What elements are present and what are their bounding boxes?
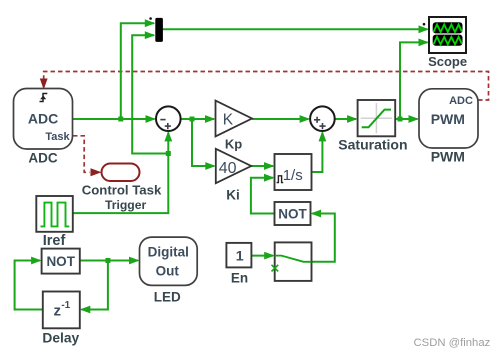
wire: En constant to Switch	[251, 255, 273, 257]
arrow into Sum2	[300, 115, 311, 123]
arrow into PWM	[409, 115, 420, 123]
arrow into integrator input	[264, 162, 275, 170]
ADC block U1	[14, 89, 73, 150]
arrow into Kp	[205, 162, 216, 170]
dot near mux	[149, 17, 152, 20]
arrow into Sum1	[146, 115, 157, 123]
junction on Sum1 output	[190, 117, 195, 122]
junction on NOT1 output	[105, 258, 110, 263]
logic NOT2	[275, 202, 311, 225]
junction on Iref wire	[166, 151, 171, 156]
svg-text:PWM: PWM	[431, 148, 465, 164]
svg-text:ADC: ADC	[28, 151, 57, 166]
svg-text:Control Task: Control Task	[82, 182, 162, 197]
wire: Iref output up to Sum1 plus branch to Mux input 2	[73, 35, 168, 213]
svg-text:Digital: Digital	[148, 245, 189, 260]
pulse generator Iref	[36, 196, 73, 232]
arrow into Digital Out	[129, 257, 140, 265]
integrator 1/s	[275, 154, 312, 190]
trigger icon	[40, 94, 48, 102]
svg-text:CSDN @finhaz: CSDN @finhaz	[414, 337, 491, 349]
arrow into Switch	[264, 252, 275, 260]
svg-text:Kp: Kp	[225, 137, 242, 152]
svg-text:K: K	[223, 112, 234, 129]
wire: Switch output up to NOT2	[312, 214, 335, 262]
svg-text:1: 1	[236, 249, 244, 265]
wire: ADC output to Sum1 with branch up to Mux input 1	[73, 23, 155, 119]
svg-text:Task: Task	[45, 131, 70, 143]
wire: red dashed PWM ADC trigger to ADC block	[44, 72, 489, 101]
svg-text:ADC: ADC	[28, 111, 58, 127]
wire: Sum1 output to K with branch down to Kp	[181, 119, 214, 166]
sum S2	[310, 106, 335, 131]
arrow: red into trigger oval	[91, 168, 102, 176]
wire: NOT1 output to Digital Out with feedback through Delay	[15, 261, 138, 310]
arrow into NOT2 right side	[311, 210, 322, 218]
gain Ki (value 40)	[216, 149, 251, 183]
junction on Saturation output	[398, 117, 403, 122]
PWM block	[419, 89, 478, 148]
wire: Kp output to integrator	[251, 165, 273, 167]
digital out block	[140, 237, 198, 285]
wire: Saturation output to PWM with branch up to Scope input 2	[395, 42, 427, 119]
arrow into Mux input 1	[145, 19, 156, 27]
arrow into Sum2 bottom	[319, 131, 327, 142]
svg-text:Trigger: Trigger	[105, 198, 147, 212]
dot near scope	[423, 23, 426, 26]
svg-text:NOT: NOT	[278, 207, 307, 222]
svg-text:1/s: 1/s	[283, 167, 303, 184]
delay z-1	[43, 292, 80, 329]
svg-text:Saturation: Saturation	[338, 136, 407, 152]
svg-text:Scope: Scope	[428, 54, 467, 69]
control task trigger oval	[102, 164, 140, 182]
sum S1	[156, 106, 181, 131]
arrow into Delay right side	[80, 306, 91, 314]
arrow into Scope input 1	[419, 25, 430, 33]
arrow into integrator reset	[264, 174, 275, 182]
wire: Sum2 output to Saturation	[335, 118, 356, 120]
svg-text:NOT: NOT	[46, 254, 75, 269]
scope block	[429, 17, 466, 53]
svg-text:40: 40	[219, 160, 237, 177]
svg-text:PWM: PWM	[431, 111, 465, 127]
arrow into Saturation	[347, 115, 358, 123]
arrow into Sum1 bottom	[164, 131, 172, 142]
svg-text:Out: Out	[156, 264, 180, 279]
switch block	[272, 242, 312, 281]
arrow into Mux input 2	[145, 31, 156, 39]
wire: integrator output up to Sum2	[312, 133, 323, 173]
wire: K output to Sum2	[252, 118, 309, 120]
arrow into Scope input 2	[419, 39, 430, 47]
arrow into NOT1	[31, 257, 41, 265]
svg-text:En: En	[231, 271, 248, 286]
mux M1	[155, 18, 163, 42]
svg-text:z: z	[53, 302, 61, 319]
svg-text:Delay: Delay	[42, 331, 79, 346]
svg-text:LED: LED	[154, 290, 181, 305]
svg-text:ADC: ADC	[449, 95, 473, 107]
junction on ADC output	[118, 117, 123, 122]
arrow: red into ADC top	[40, 79, 48, 90]
wire: red dashed ADC Task to Control Task Trigger	[73, 136, 90, 173]
saturation block	[358, 100, 396, 136]
arrow into K	[205, 115, 216, 123]
wire: Mux output to Scope input 1	[163, 28, 428, 30]
wire: NOT2 output up to integrator reset port	[251, 178, 275, 214]
gain K	[216, 101, 253, 137]
constant En (1)	[226, 243, 251, 268]
svg-text:Ki: Ki	[226, 188, 240, 203]
svg-text:Iref: Iref	[43, 233, 66, 249]
logic NOT1	[42, 249, 80, 274]
svg-text:-1: -1	[61, 300, 70, 311]
